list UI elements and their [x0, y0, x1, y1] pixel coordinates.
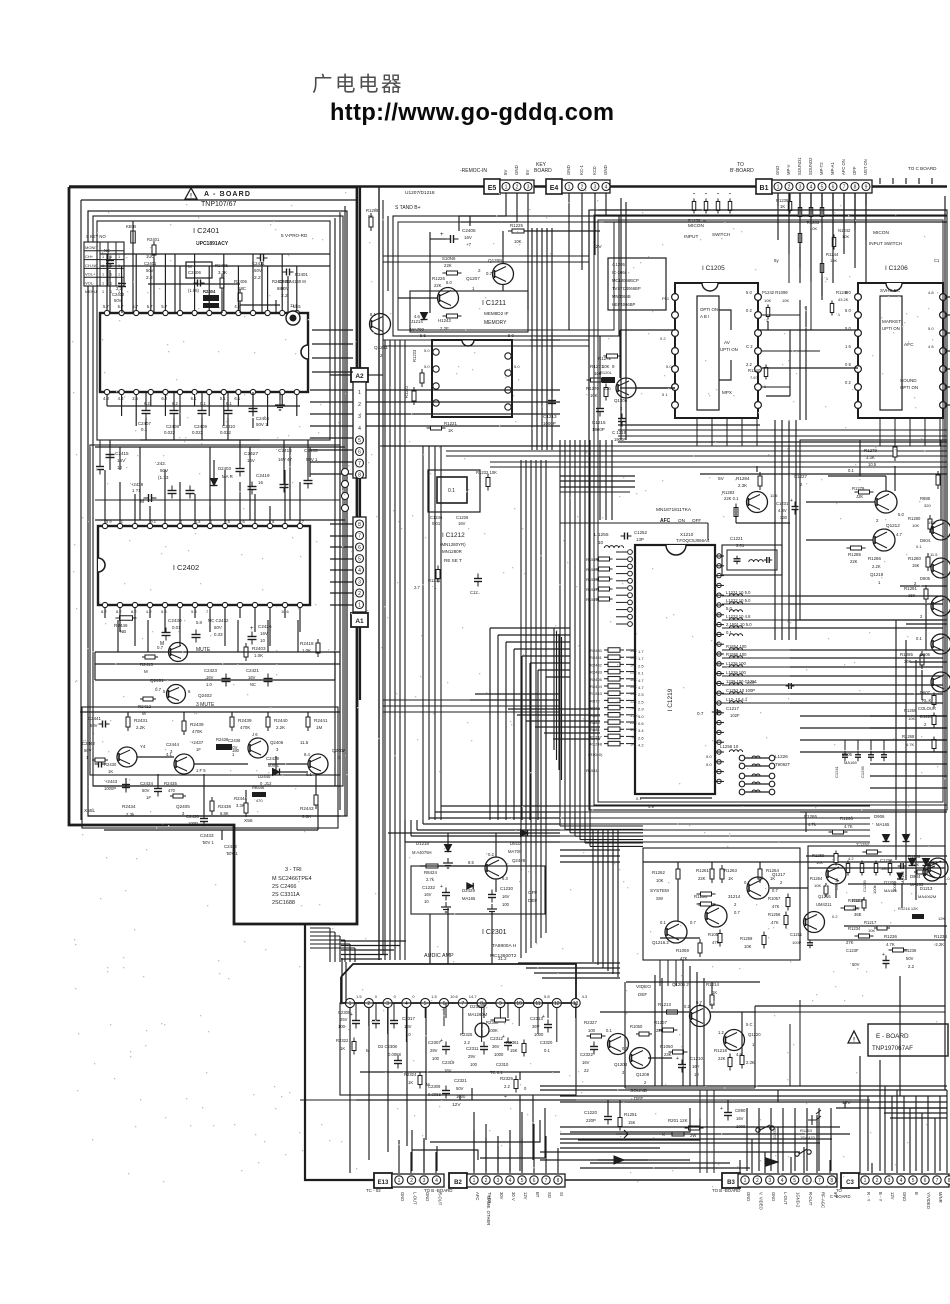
svg-text:11.5: 11.5 — [928, 520, 936, 525]
svg-text:6.8K: 6.8K — [220, 811, 229, 816]
A1 pin 8 — [356, 520, 364, 528]
wires IC2401 top pin stubs — [106, 254, 108, 310]
caps bank C1241 C1239 — [844, 751, 846, 755]
svg-text:R1543: R1543 — [590, 691, 603, 696]
svg-text:TO B -BOARD: TO B -BOARD — [712, 1188, 740, 1193]
A-board extra rails — [95, 499, 340, 501]
svg-text:Q1217: Q1217 — [772, 872, 786, 877]
svg-text:5: 5 — [793, 1178, 796, 1184]
svg-text:16V: 16V — [502, 894, 510, 899]
svg-text:R2483: R2483 — [590, 670, 603, 675]
E13 pin 3 — [420, 1176, 428, 1184]
svg-text:INPUT SWITCH: INPUT SWITCH — [869, 241, 902, 246]
svg-text:0 .J12: 0 .J12 — [260, 781, 272, 786]
svg-text:+: + — [676, 1056, 679, 1062]
svg-text:36E: 36E — [854, 912, 862, 917]
svg-text:11.5: 11.5 — [770, 493, 778, 498]
connector B1 pin 4 — [807, 183, 815, 191]
svg-text:1: 1 — [864, 1178, 867, 1184]
IC1205 part-number box — [608, 258, 666, 310]
svg-text:16: 16 — [258, 480, 263, 485]
C3 pin 4 — [897, 1176, 905, 1184]
svg-text:C2310: C2310 — [496, 1062, 509, 1067]
svg-text:+: + — [440, 232, 444, 238]
svg-text:470K: 470K — [192, 729, 202, 734]
IC2301 lower frame — [340, 1003, 576, 1095]
A-board bottom cluster frame — [82, 707, 338, 828]
B3 pin 7 — [815, 1176, 823, 1184]
right column horizontal rows — [800, 715, 947, 717]
svg-text:47K: 47K — [680, 956, 688, 961]
staircase below IC1201 to system frame — [616, 847, 643, 849]
svg-text:10: 10 — [516, 1001, 522, 1007]
svg-text:4.1205: 4.1205 — [612, 262, 625, 267]
svg-text:1K: 1K — [108, 769, 113, 774]
transistor Q904 — [928, 858, 948, 878]
B1 pin verticals extended — [777, 193, 779, 240]
svg-text:M SC2466TPE4: M SC2466TPE4 — [272, 876, 312, 882]
svg-text:8: 8 — [557, 1178, 560, 1184]
vertical 12V right drop — [844, 1102, 846, 1108]
resistor R2442 — [307, 713, 309, 731]
svg-text:22K: 22K — [718, 1056, 726, 1061]
bus horizontals y480-492 left of IC1201 — [560, 480, 630, 482]
svg-text:4.7K: 4.7K — [906, 742, 915, 747]
svg-text:1K: 1K — [780, 204, 785, 209]
svg-text:OPTI ON: OPTI ON — [900, 385, 918, 390]
svg-text:R2431: R2431 — [134, 718, 148, 723]
svg-text:1: 1 — [349, 1001, 352, 1007]
IC2301 body — [341, 964, 576, 1003]
connector E4 pin 2 — [578, 183, 586, 191]
svg-text:4.1: 4.1 — [166, 752, 172, 757]
svg-text:4.3: 4.3 — [118, 396, 124, 401]
resistor R120L — [602, 377, 615, 383]
svg-text:SOUND2: SOUND2 — [808, 157, 813, 175]
transistor Q1212 — [875, 491, 897, 513]
IC2402 section frame — [90, 445, 340, 775]
svg-text:R-OUT: R-OUT — [438, 1192, 443, 1206]
dark resistor RB446 — [252, 792, 266, 797]
svg-text:3: 3 — [182, 811, 185, 816]
svg-text:3: 3 — [799, 184, 802, 190]
bus verticals center x600-612 — [599, 440, 601, 520]
central cascade extra lines — [553, 628, 555, 750]
connector B1 pin 8 — [851, 183, 859, 191]
svg-text:1GND-2: 1GND-2 — [796, 1192, 801, 1208]
svg-text:R1546: R1546 — [586, 577, 599, 582]
svg-text:MA165: MA165 — [884, 888, 897, 893]
svg-text:R1291: R1291 — [904, 586, 917, 591]
svg-text:8.1: 8.1 — [370, 312, 376, 317]
svg-text:GND: GND — [771, 1192, 776, 1201]
svg-text:C1229: C1229 — [880, 858, 893, 863]
svg-text:7: 7 — [936, 1178, 939, 1184]
svg-text:2.9: 2.9 — [638, 707, 644, 712]
bus from A2 right — [366, 389, 560, 391]
A-board right column pins — [342, 469, 349, 476]
svg-text:2.2K: 2.2K — [872, 564, 881, 569]
IC1205 inner switch rects — [697, 296, 719, 410]
wire bundle into E13/B2 — [411, 1130, 413, 1171]
IC2402 top pins — [102, 523, 107, 528]
E13 pin 2 — [407, 1176, 415, 1184]
svg-text:100-: 100- — [338, 1024, 347, 1029]
thick wire from 3-TRI box to E13 — [305, 924, 374, 1180]
svg-text:36V: 36V — [532, 1024, 540, 1029]
IC1201 right pins — [717, 554, 721, 558]
svg-text:1: 1 — [102, 273, 104, 277]
svg-text:5.0: 5.0 — [898, 512, 904, 517]
svg-text:D605: D605 — [920, 576, 931, 581]
svg-text:3.01: 3.01 — [736, 543, 745, 548]
svg-text:L-OUT: L-OUT — [783, 1192, 788, 1205]
svg-text:R2404: R2404 — [590, 684, 603, 689]
jumper sw2 — [795, 1152, 799, 1156]
svg-text:GND: GND — [400, 1192, 405, 1201]
svg-text:I C1212: I C1212 — [442, 532, 465, 539]
diode pair row2 — [909, 859, 916, 866]
wires IC2402 top pin stubs — [104, 470, 106, 523]
extra verticals under B1 to IC1206 — [832, 193, 834, 283]
keypad matrix table — [84, 242, 124, 286]
wires IC2401 section — [132, 221, 134, 313]
svg-text:6.2: 6.2 — [161, 396, 167, 401]
svg-text:5: 5 — [358, 556, 361, 562]
step wires above B3 — [570, 1108, 690, 1132]
svg-text:I C1205: I C1205 — [702, 265, 725, 272]
svg-text:3.3K: 3.3K — [218, 270, 227, 275]
svg-text:MA1260M: MA1260M — [468, 1012, 488, 1017]
svg-text:3.3K: 3.3K — [236, 803, 245, 808]
svg-text:0.1: 0.1 — [141, 427, 148, 432]
svg-text:4.2: 4.2 — [848, 856, 854, 861]
svg-text:L1226: L1226 — [775, 754, 788, 759]
arrow symbol 2 — [616, 1130, 628, 1138]
svg-text:http://www.go-gddq.com: http://www.go-gddq.com — [330, 100, 614, 126]
svg-text:5V: 5V — [503, 170, 508, 175]
svg-text:5: 5 — [358, 438, 361, 444]
svg-text:TVSTC4066BP: TVSTC4066BP — [612, 286, 641, 291]
svg-text:0.7: 0.7 — [690, 920, 696, 925]
svg-text:R2325: R2325 — [460, 1032, 473, 1037]
svg-text:I C1206: I C1206 — [885, 265, 908, 272]
video def partial frame — [624, 982, 626, 1088]
transistor Q1216.2 — [665, 921, 687, 943]
connector E4 — [546, 179, 562, 194]
svg-text:1: 1 — [520, 866, 523, 871]
resistor R1226 — [443, 272, 462, 274]
E-board left border — [378, 186, 380, 960]
svg-text:C2322: C2322 — [580, 1052, 593, 1057]
svg-text:8.2: 8.2 — [116, 609, 122, 614]
svg-text:R1540: R1540 — [586, 567, 599, 572]
svg-text:C12..: C12.. — [470, 590, 480, 595]
svg-text:D604.: D604. — [920, 538, 931, 543]
connector B2 — [449, 1173, 467, 1188]
svg-text:C1: C1 — [934, 258, 940, 263]
svg-text:1000P: 1000P — [104, 786, 116, 791]
capacitor C2405 block — [186, 262, 212, 278]
rails below top bus right section — [598, 209, 947, 211]
svg-text:R1223: R1223 — [412, 349, 417, 362]
svg-text:Q2402: Q2402 — [198, 693, 212, 698]
svg-text:6: 6 — [533, 1178, 536, 1184]
svg-text:0.7: 0.7 — [697, 711, 704, 716]
IC1205 pins right — [755, 294, 762, 301]
svg-text:Q1203: Q1203 — [614, 1062, 628, 1067]
wires right lower — [800, 811, 947, 813]
svg-text:COLOUR: COLOUR — [918, 706, 936, 711]
svg-text:100: 100 — [588, 1028, 596, 1033]
svg-text:4.3: 4.3 — [582, 994, 588, 999]
transistor Q1216 — [804, 912, 825, 933]
B3 pin 3 — [766, 1176, 774, 1184]
svg-text:D1213: D1213 — [920, 886, 933, 891]
horizontal bundle y806-845 — [560, 805, 870, 807]
svg-text:16V: 16V — [117, 458, 126, 463]
svg-text:MN1871811TKA: MN1871811TKA — [656, 507, 692, 513]
svg-text:0 2: 0 2 — [845, 380, 851, 385]
resistor R2401 — [132, 227, 134, 247]
svg-text:I C2402: I C2402 — [173, 563, 199, 572]
svg-text:1 F 5: 1 F 5 — [196, 768, 206, 773]
svg-text:MARKET: MARKET — [882, 319, 901, 324]
resistor R2441 — [267, 713, 269, 731]
svg-text:1K: 1K — [712, 990, 717, 995]
svg-text:OPTI ON: OPTI ON — [700, 307, 718, 312]
svg-text:2: 2 — [581, 184, 584, 190]
svg-text:2S C2466: 2S C2466 — [272, 884, 296, 890]
IC1206 right pin stubs — [946, 296, 950, 298]
svg-text:2.2: 2.2 — [746, 362, 752, 367]
svg-text:0.7: 0.7 — [734, 910, 740, 915]
svg-text:0.1: 0.1 — [544, 1048, 550, 1053]
caps ground row — [360, 1071, 560, 1073]
capacitor C2415 — [109, 440, 111, 470]
svg-text:10: 10 — [424, 899, 429, 904]
svg-text:1: 1 — [92, 730, 95, 735]
resistors below B1 bank — [799, 205, 801, 220]
svg-text:16V: 16V — [692, 1064, 700, 1069]
svg-text:R875: R875 — [590, 706, 600, 711]
svg-text:0.7: 0.7 — [772, 888, 778, 893]
svg-text:+: + — [440, 1038, 443, 1044]
svg-text:14.7: 14.7 — [469, 994, 478, 999]
svg-text:+: + — [790, 498, 793, 504]
extra drops above B3 — [699, 1090, 701, 1173]
B3 pin 2 — [753, 1176, 761, 1184]
svg-text:2.2: 2.2 — [146, 275, 153, 281]
svg-text:S TAND B+: S TAND B+ — [395, 205, 421, 211]
svg-text:M A4075H: M A4075H — [412, 850, 432, 855]
svg-text:C1236: C1236 — [904, 948, 917, 953]
svg-text:50V: 50V — [230, 745, 238, 750]
svg-text:AFC ON: AFC ON — [841, 159, 846, 175]
svg-text:R1279: R1279 — [852, 486, 865, 491]
svg-text:16V: 16V — [464, 235, 472, 240]
extra bottom rails — [560, 1126, 840, 1128]
svg-text:R8424: R8424 — [424, 870, 437, 875]
svg-text:8.2: 8.2 — [131, 609, 137, 614]
svg-text:2.2: 2.2 — [504, 1084, 510, 1089]
connector C3 — [841, 1173, 859, 1188]
svg-text:R1284: R1284 — [736, 476, 750, 481]
svg-text:8: 8 — [830, 1178, 833, 1184]
svg-text:43.2K: 43.2K — [838, 297, 849, 302]
video def wires — [626, 981, 760, 983]
transistor Q1208 — [630, 1048, 651, 1069]
svg-text:2.3K: 2.3K — [746, 1060, 755, 1065]
svg-text:5.8: 5.8 — [191, 609, 197, 614]
svg-text:C3320: C3320 — [540, 1040, 553, 1045]
right edge rail — [944, 196, 946, 1090]
transistor Q2404 — [174, 754, 194, 774]
wire bundle 3TRI to IC2301 — [310, 927, 330, 929]
svg-text:330: 330 — [780, 515, 788, 520]
B2 pin 1 — [470, 1176, 478, 1184]
C3 pin 3 — [885, 1176, 893, 1184]
svg-text:MEM8D2 IF: MEM8D2 IF — [484, 311, 509, 316]
svg-text:R1263: R1263 — [724, 868, 737, 873]
wires: right side verticals to bottom — [859, 1056, 861, 1100]
svg-text:Q1212: Q1212 — [886, 523, 900, 528]
svg-text:2.2K: 2.2K — [136, 725, 145, 730]
svg-text:1 6: 1 6 — [845, 344, 851, 349]
svg-text:10K: 10K — [912, 862, 919, 867]
diode D1218 — [445, 845, 452, 852]
svg-text:R2438: R2438 — [218, 804, 231, 809]
svg-text:R1260: R1260 — [848, 898, 861, 903]
svg-text:9: 9 — [865, 184, 868, 190]
svg-text:(1.33: (1.33 — [158, 475, 169, 480]
svg-text:100P: 100P — [792, 940, 802, 945]
B2 pin 2 — [482, 1176, 490, 1184]
svg-text:2: 2 — [485, 1178, 488, 1184]
svg-text:R1214: R1214 — [706, 982, 719, 987]
svg-text:!: ! — [190, 194, 192, 200]
svg-text:C123F: C123F — [846, 948, 859, 953]
C3 pin 6 — [921, 1176, 929, 1184]
svg-text:R1285: R1285 — [900, 652, 913, 657]
svg-text:SI: SI — [559, 1192, 564, 1196]
svg-text:2: 2 — [920, 614, 923, 619]
svg-text:2: 2 — [620, 406, 623, 411]
svg-text:MEMORY: MEMORY — [484, 320, 507, 326]
svg-text:6: 6 — [358, 449, 361, 455]
wire between A2 and A1 strips — [359, 478, 361, 517]
svg-text:R1544: R1544 — [586, 557, 599, 562]
scan noise speckle — [72, 190, 945, 1187]
svg-text:R1248: R1248 — [590, 742, 603, 747]
connector B1 pin 2 — [785, 183, 793, 191]
svg-text:100k: 100k — [872, 885, 877, 894]
svg-text:36V: 36V — [492, 1044, 500, 1049]
svg-text:RE SE T: RE SE T — [444, 558, 462, 563]
svg-text:50V: 50V — [146, 268, 154, 273]
IC2401 section frame — [97, 221, 330, 440]
svg-text:1000: 1000 — [494, 1052, 504, 1057]
svg-text:E4: E4 — [550, 185, 559, 192]
arrow symbol 1 — [614, 1156, 624, 1164]
connector A1 pin strip — [353, 517, 366, 612]
svg-text:4: 4 — [435, 1178, 438, 1184]
svg-text:U1207/D1218: U1207/D1218 — [405, 190, 435, 196]
svg-text:OFF: OFF — [528, 890, 537, 895]
svg-text:1: 1 — [398, 1178, 401, 1184]
svg-text:TO C BOARD: TO C BOARD — [908, 166, 937, 171]
transistor Q1203 — [608, 1034, 629, 1055]
right mid wires — [894, 466, 896, 491]
svg-text:R - Y: R - Y — [866, 1192, 871, 1202]
svg-text:0: 0 — [375, 994, 378, 999]
svg-text:5.7: 5.7 — [118, 304, 124, 309]
svg-text:VOL+: VOL+ — [85, 272, 96, 277]
svg-text:4.2: 4.2 — [146, 609, 152, 614]
horizontal bundle y806-845 left extension — [441, 805, 560, 807]
resistor R2446 — [116, 617, 137, 619]
connector E5 pin 2 — [513, 183, 521, 191]
svg-text:Q1216: Q1216 — [818, 894, 831, 899]
svg-text:MA700: MA700 — [410, 327, 424, 332]
svg-text:16V: 16V — [582, 1060, 590, 1065]
svg-text:R2322: R2322 — [336, 1038, 349, 1043]
svg-text:R2430: R2430 — [104, 762, 117, 767]
svg-text:13P: 13P — [636, 537, 644, 542]
svg-text:R2361: R2361 — [506, 1040, 519, 1045]
svg-text:+: + — [440, 884, 443, 890]
svg-text:5.7: 5.7 — [103, 304, 109, 309]
svg-text:R884: R884 — [590, 727, 600, 732]
bus continue down right of IC2301 — [592, 830, 594, 962]
svg-text:16V: 16V — [248, 675, 256, 680]
svg-text:(MN1280YR): (MN1280YR) — [440, 542, 466, 547]
svg-text:广电电器: 广电电器 — [312, 73, 404, 96]
svg-text:1: 1 — [102, 281, 104, 285]
svg-text:30V: 30V — [499, 1192, 504, 1200]
svg-text:C2321: C2321 — [454, 1078, 467, 1083]
resistor R1279v — [894, 443, 896, 461]
svg-text:KB B: KB B — [126, 224, 136, 229]
resistor R2440 — [231, 713, 233, 731]
svg-text:C2408: C2408 — [166, 424, 179, 429]
svg-text:R1226: R1226 — [432, 276, 445, 281]
svg-text:R2403: R2403 — [252, 646, 266, 651]
svg-text:1K: 1K — [408, 1080, 413, 1085]
svg-text:C2415: C2415 — [115, 451, 129, 456]
svg-text:X55: X55 — [244, 818, 253, 824]
memory chip block — [432, 340, 512, 417]
IC2401 top pins — [104, 310, 109, 315]
svg-text:X55L: X55L — [84, 808, 96, 814]
svg-text:-2.2K: -2.2K — [934, 942, 944, 947]
svg-text:I C1219: I C1219 — [667, 688, 674, 711]
svg-text:UPTI ON: UPTI ON — [882, 326, 900, 331]
svg-text:T.FOQC5J066A4: T.FOQC5J066A4 — [676, 538, 710, 543]
connector B1 — [756, 179, 772, 194]
svg-text:B1: B1 — [760, 185, 769, 192]
svg-text:C2439: C2439 — [266, 756, 279, 761]
svg-text:0.33: 0.33 — [214, 632, 223, 637]
resistor R1225 — [508, 230, 528, 232]
svg-text:MN1280R: MN1280R — [442, 549, 462, 554]
svg-text:Q1207: Q1207 — [466, 276, 480, 281]
svg-text:A1: A1 — [355, 618, 364, 625]
svg-text:E - BOARD: E - BOARD — [876, 1033, 909, 1040]
svg-text:0.7: 0.7 — [157, 645, 164, 650]
svg-text:GND: GND — [746, 1192, 751, 1201]
right column small resistors — [933, 693, 935, 708]
